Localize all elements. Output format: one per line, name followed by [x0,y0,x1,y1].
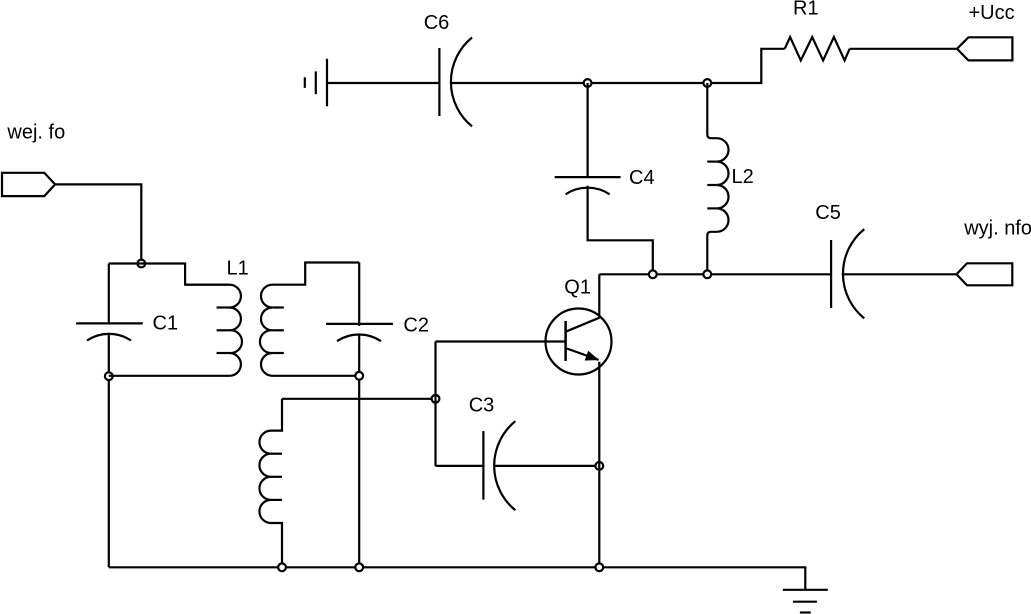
wire C3 to emitter [494,465,599,467]
terminal wej. fo [2,173,55,196]
wire GND1 to C6 [327,82,439,84]
wire C5 to wyj terminal [842,273,957,275]
transformer L1 secondary winding [260,263,359,376]
transformer L1 primary winding [109,285,242,376]
node N6 emitter line [595,462,603,470]
terminal wyj. nfo [957,263,1013,285]
wire tank top [109,264,230,285]
wire C6 to node top line [451,82,707,84]
svg-text:C2: C2 [403,315,429,337]
capacitor C4 [555,177,621,194]
transistor Q1 [546,309,612,375]
capacitor C1 [76,323,143,340]
inductor L3 (feedback winding) [259,399,282,568]
svg-text:C5: C5 [815,202,841,224]
svg-text:Q1: Q1 [564,277,591,299]
node N9 rail at emitter [595,563,603,571]
resistor R1 [785,37,850,60]
wire wej terminal to tank [55,184,141,263]
inductor L2 [707,83,728,274]
node N5 C2 bottom [355,372,363,380]
wire to C3 [436,465,484,467]
node N7 top of tank [137,260,145,268]
ground GND1 (left, rotated) [305,59,327,107]
wire C4 to output line [588,186,653,275]
svg-text:L1: L1 [227,258,249,280]
node N4 output line at L2 [703,270,711,278]
node N12 rail at L3 [278,563,286,571]
svg-text:C6: C6 [424,12,450,34]
wire base to Q1 [436,340,566,342]
capacitor C5 [831,229,864,318]
node N1 top line at C4 [584,79,592,87]
terminal +Ucc [957,37,1012,60]
svg-text:C1: C1 [153,313,179,335]
wire feedback (L3 to base node) [282,398,436,400]
capacitor C3 [483,421,515,510]
svg-text:wyj. nfo: wyj. nfo [963,217,1031,239]
node N11 base branch [432,395,440,403]
wire C1 top [108,264,110,324]
node N3 output line at C4 [649,270,657,278]
wire bottom rail [109,567,806,590]
capacitor C2 [326,324,393,341]
node N8 C1 bottom [105,372,113,380]
svg-text:wej. fo: wej. fo [6,121,65,143]
wire base vertical [434,342,436,466]
wire collector [598,274,600,317]
svg-text:C4: C4 [629,167,655,189]
svg-text:L2: L2 [732,166,754,188]
wire emitter down [598,362,600,568]
node N10 rail at C2 [355,563,363,571]
wire C1 bottom [108,333,110,567]
node N2 top line at L2 [703,79,711,87]
svg-text:+Ucc: +Ucc [969,2,1015,24]
wire output line (collector to C5) [599,273,831,275]
wire C2 top [358,263,360,326]
capacitor C6 [439,38,472,127]
wire top line to R1 jog [707,49,784,83]
wire N1 down to C4 [586,83,588,177]
wire C2 bottom to rail [358,335,360,567]
svg-text:R1: R1 [793,0,819,19]
svg-text:C3: C3 [469,394,495,416]
ground GND2 (bottom right) [783,590,828,613]
wire R1 to +Ucc [850,48,957,50]
